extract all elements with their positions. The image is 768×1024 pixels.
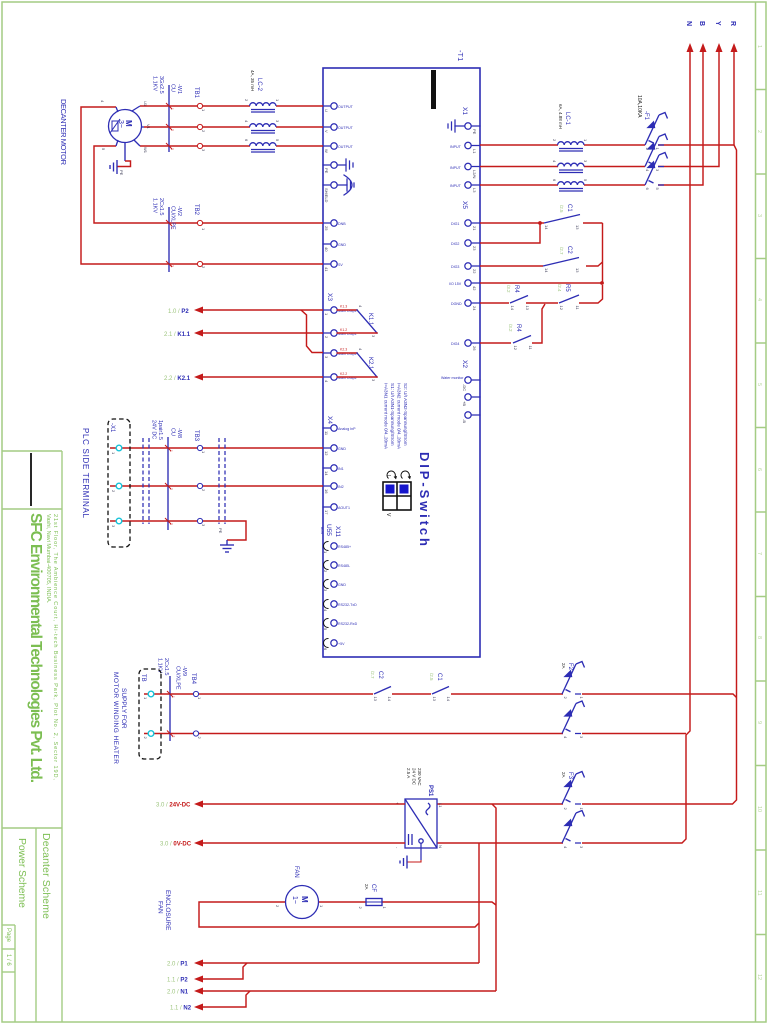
svg-text:21st Floor, The Ambience Court: 21st Floor, The Ambience Court, Hi-tech …	[52, 514, 58, 780]
svg-text:1: 1	[756, 45, 762, 48]
wire R branch to F2:1	[582, 694, 737, 698]
svg-text:2.5 A: 2.5 A	[406, 768, 411, 778]
svg-text:/2.5: /2.5	[559, 205, 564, 213]
svg-text:FAN: FAN	[293, 866, 299, 878]
svg-text:MOTOR WINDING HEATER: MOTOR WINDING HEATER	[112, 672, 119, 764]
svg-text:41: 41	[324, 267, 329, 272]
svg-text:ENCLOSURE: ENCLOSURE	[164, 890, 171, 931]
contact R4 second	[513, 336, 531, 344]
svg-text:4: 4	[324, 380, 329, 383]
svg-text:1.0 / P2: 1.0 / P2	[168, 309, 189, 315]
svg-text:B: B	[698, 21, 705, 26]
terminal U	[331, 103, 337, 109]
thermistor inside motor	[110, 119, 120, 133]
svg-text:3: 3	[583, 160, 588, 163]
svg-text:21: 21	[472, 226, 477, 231]
svg-text:C2: C2	[566, 246, 572, 254]
wire B phase	[658, 50, 703, 185]
svg-text:17: 17	[324, 510, 329, 515]
svg-text:3: 3	[170, 148, 174, 150]
wire X5:22 via C2	[480, 265, 543, 267]
svg-text:1~: 1~	[291, 896, 298, 904]
fuse switch F2 pole 1	[562, 662, 585, 695]
svg-text:42: 42	[472, 286, 477, 291]
svg-text:L1: L1	[472, 149, 477, 154]
svg-text:/3.2: /3.2	[508, 324, 513, 332]
CONTACTNET	[480, 204, 604, 351]
arrow P2	[194, 976, 203, 983]
svg-text:13: 13	[525, 306, 530, 311]
svg-text:-W1: -W1	[176, 84, 182, 94]
svg-text:N: N	[438, 845, 443, 848]
svg-text:-W8: -W8	[176, 428, 182, 438]
svg-text:3: 3	[111, 525, 116, 528]
wire R phase	[733, 50, 735, 145]
arrow R	[731, 43, 738, 52]
CONTROLLER	[320, 50, 480, 657]
svg-text:1: 1	[201, 109, 206, 112]
terminal PE	[331, 162, 337, 168]
svg-text:11: 11	[324, 431, 329, 436]
svg-text:-B: -B	[462, 419, 467, 423]
svg-text:11: 11	[575, 306, 580, 311]
arrow P1	[194, 960, 203, 967]
terminal X3:2	[331, 330, 337, 336]
HEATER	[767, 0, 768, 1]
wire branch to X5:23	[480, 223, 540, 243]
svg-text:2: 2	[645, 148, 650, 151]
svg-text:LC-1: LC-1	[564, 112, 570, 126]
MOTOR	[59, 70, 323, 272]
fan motor M 1~	[286, 886, 319, 919]
TITLE BLOCK	[2, 451, 62, 1022]
terminal X3:1	[331, 307, 337, 313]
wire rail	[602, 223, 604, 283]
wire P1	[203, 962, 479, 964]
svg-text:N: N	[685, 21, 692, 26]
terminal X3:3	[331, 350, 337, 356]
wire N2	[203, 991, 250, 1007]
shield dash marker 1	[219, 438, 225, 524]
svg-text:40: 40	[324, 247, 329, 252]
fuse switch F2 pole 2	[562, 701, 585, 734]
svg-text:4: 4	[100, 100, 105, 103]
terminal X11:1	[331, 543, 337, 549]
terminal X5:26	[465, 340, 471, 346]
svg-text:5: 5	[275, 139, 280, 142]
wire U phase	[276, 105, 323, 107]
arrow N2	[194, 1004, 203, 1011]
svg-text:V: V	[324, 130, 329, 133]
HEATER	[112, 658, 737, 849]
choke LC-1 pole 1	[558, 142, 584, 151]
svg-text:2: 2	[201, 130, 206, 133]
LC-1 pin numbers	[552, 139, 588, 182]
wire F1:1 to LC-1	[658, 144, 734, 146]
svg-text:25: 25	[324, 226, 329, 231]
svg-text:S2: U/I A3N2-Spannung/Strom: S2: U/I A3N2-Spannung/Strom	[403, 383, 408, 446]
svg-text:U1: U1	[143, 101, 148, 107]
svg-text:1.1 / N2: 1.1 / N2	[170, 1006, 192, 1012]
svg-text:INPUT: INPUT	[450, 184, 462, 188]
svg-text:5: 5	[101, 148, 106, 151]
svg-text:6: 6	[552, 179, 557, 182]
label cable W1	[152, 76, 183, 94]
wire N branch to F2:3	[582, 733, 686, 735]
svg-text:6A, 4.88 mH: 6A, 4.88 mH	[558, 104, 563, 129]
svg-text:1: 1	[583, 139, 588, 142]
wire W phase	[276, 145, 323, 147]
arrow K2.1	[194, 374, 203, 381]
terminal TB4:2	[193, 731, 198, 736]
svg-text:2.0 / P1: 2.0 / P1	[167, 962, 188, 968]
svg-text:2: 2	[171, 736, 175, 738]
ground at PS1	[400, 856, 407, 869]
svg-text:X1: X1	[461, 107, 468, 115]
svg-text:13: 13	[373, 697, 378, 702]
terminal TB3:3	[197, 518, 202, 523]
svg-text:2A: 2A	[364, 884, 369, 890]
svg-text:2: 2	[111, 490, 116, 493]
svg-text:-X1: -X1	[109, 423, 115, 433]
terminal X4:16	[331, 483, 337, 489]
ground inside box at X1:PE	[448, 120, 465, 132]
svg-text:U: U	[324, 109, 329, 112]
wire P2	[203, 963, 247, 979]
svg-text:2: 2	[324, 336, 329, 339]
svg-text:FAN: FAN	[157, 901, 164, 914]
arrow B	[700, 43, 707, 52]
svg-text:2: 2	[358, 907, 363, 910]
wire R branch to F3:1	[582, 803, 658, 805]
svg-text:I: I	[385, 475, 391, 476]
wire R branch rail	[658, 145, 737, 804]
svg-text:PE: PE	[324, 168, 329, 174]
terminal X1:L3	[465, 182, 471, 188]
wire X4:16 to X1:2	[110, 485, 323, 487]
svg-text:X5: X5	[461, 201, 468, 209]
svg-text:2: 2	[170, 129, 174, 131]
svg-text:INPUT: INPUT	[450, 145, 462, 149]
svg-text:3Gx2.5: 3Gx2.5	[158, 76, 164, 94]
svg-text:26: 26	[472, 346, 477, 351]
svg-text:K2.1: K2.1	[367, 357, 373, 370]
svg-text:-W2: -W2	[176, 206, 182, 216]
svg-text:1: 1	[201, 228, 206, 231]
terminal X5:24	[465, 300, 471, 306]
arrow N	[687, 43, 694, 52]
svg-text:2.2 / K2.1: 2.2 / K2.1	[164, 376, 191, 382]
wire CF to rail	[382, 902, 496, 905]
terminal X1:PE	[465, 123, 471, 129]
svg-text:12: 12	[756, 974, 762, 980]
svg-text:V: V	[385, 513, 391, 517]
motor pin labels	[100, 100, 151, 154]
svg-text:1: 1	[169, 450, 173, 452]
svg-text:TB: TB	[140, 674, 146, 682]
wire 24V-DC	[203, 803, 405, 805]
arrow 0V-DC	[194, 840, 203, 847]
cable marker W1	[168, 85, 170, 152]
terminal X1:L1	[465, 142, 471, 148]
terminal X4:17	[331, 504, 337, 510]
svg-text:SHIELD: SHIELD	[324, 188, 329, 203]
svg-text:/2.4: /2.4	[557, 284, 562, 292]
svg-text:1.1 / P2: 1.1 / P2	[167, 978, 188, 984]
terminal X5:21	[465, 220, 471, 226]
label cable W2	[152, 198, 183, 230]
svg-text:DIG1: DIG1	[451, 222, 459, 226]
svg-text:24 V DC: 24 V DC	[412, 768, 417, 786]
svg-text:L1: L1	[438, 803, 443, 808]
terminal X5:22	[465, 263, 471, 269]
svg-text:K2.2: K2.2	[340, 372, 347, 376]
svg-text:1: 1	[143, 697, 148, 700]
svg-text:SFC Environmental Technologies: SFC Environmental Technologies Pvt. Ltd.	[27, 513, 44, 783]
svg-text:1pair1.5: 1pair1.5	[157, 420, 163, 440]
svg-text:1: 1	[579, 697, 584, 700]
svg-text:3: 3	[579, 846, 584, 849]
svg-text:14: 14	[510, 306, 515, 311]
terminal TB2:2	[197, 261, 202, 266]
wire thermistor pin5 to 25	[94, 146, 323, 223]
svg-text:2: 2	[275, 905, 280, 908]
svg-text:I/O 15V: I/O 15V	[449, 282, 462, 286]
svg-text:U55: U55	[325, 524, 332, 536]
svg-text:3: 3	[579, 736, 584, 739]
terminal X11:3	[331, 581, 337, 587]
power supply PS1	[405, 799, 437, 848]
terminal TB1:1	[197, 103, 202, 108]
svg-text:TB4: TB4	[190, 673, 196, 685]
arrow K1.1	[194, 330, 203, 337]
svg-text:SUPPLY FOR: SUPPLY FOR	[120, 688, 127, 729]
logo black bar	[431, 70, 436, 109]
cable marker W8	[167, 437, 169, 530]
wire thermistor pin4 to 41	[81, 107, 323, 264]
wire V phase	[276, 126, 323, 128]
DIP switch body	[383, 482, 411, 510]
svg-text:14: 14	[544, 225, 549, 230]
svg-text:M: M	[124, 120, 133, 127]
svg-text:+5V: +5V	[338, 642, 345, 646]
svg-text:IN2: IN2	[338, 485, 344, 489]
wire TB3:3 to PE ground	[110, 521, 246, 540]
DIP	[383, 383, 432, 546]
fold mark	[30, 453, 32, 506]
svg-text:3: 3	[371, 379, 376, 382]
svg-text:1: 1	[171, 696, 175, 698]
svg-text:GND: GND	[338, 583, 346, 587]
terminal TB4:1	[193, 691, 198, 696]
label cable W8	[151, 420, 183, 440]
wire F3:1 to PS1 L1	[437, 803, 563, 805]
svg-text:S1: U/I A3N1-Spannung/Strom: S1: U/I A3N1-Spannung/Strom	[390, 383, 395, 446]
terminal X11:2	[331, 562, 337, 568]
U55 bracket contacts	[324, 542, 329, 648]
svg-text:4: 4	[645, 169, 650, 172]
svg-text:I=A3N1 current mode 0/4..20mA: I=A3N1 current mode 0/4..20mA	[384, 383, 389, 450]
svg-text:6: 6	[645, 188, 650, 191]
PSU	[156, 768, 443, 869]
svg-text:2A: 2A	[561, 663, 566, 669]
svg-text:13: 13	[432, 697, 437, 702]
svg-text:4: 4	[358, 348, 363, 351]
terminal strip TB dashed box	[139, 669, 161, 759]
svg-text:2: 2	[756, 130, 762, 133]
svg-text:12: 12	[324, 451, 329, 456]
wire fan left drop	[199, 902, 479, 927]
svg-text:14: 14	[387, 697, 392, 702]
wire Y phase	[658, 50, 719, 167]
svg-text:IN1: IN1	[338, 467, 344, 471]
svg-text:1: 1	[275, 99, 280, 102]
svg-text:+B: +B	[462, 401, 467, 406]
svg-text:4A, 35 mH: 4A, 35 mH	[250, 70, 255, 91]
svg-text:10: 10	[756, 806, 762, 812]
svg-text:RS232-TxD: RS232-TxD	[338, 603, 357, 607]
svg-text:L2/N: L2/N	[472, 170, 477, 179]
svg-text:5: 5	[583, 179, 588, 182]
terminal 25	[331, 220, 337, 226]
svg-text:K1.2: K1.2	[340, 328, 347, 332]
svg-text:RS232-RxD: RS232-RxD	[338, 622, 358, 626]
svg-text:Page: Page	[5, 928, 11, 943]
svg-text:C1: C1	[566, 204, 572, 212]
svg-text:R4: R4	[513, 285, 519, 293]
svg-text:12: 12	[559, 306, 564, 311]
svg-text:W1: W1	[143, 147, 148, 154]
svg-text:2: 2	[563, 808, 568, 811]
wire N1	[203, 990, 496, 992]
stubs top edge	[471, 125, 480, 127]
svg-text:1.1KV: 1.1KV	[152, 198, 158, 213]
svg-text:PE: PE	[119, 170, 124, 176]
svg-text:CU/XLPE: CU/XLPE	[170, 206, 176, 230]
svg-text:2A: 2A	[561, 772, 566, 778]
wire X5:21	[480, 222, 540, 224]
arrow N1	[194, 988, 203, 995]
svg-text:X3: X3	[326, 293, 333, 301]
terminal X11:4	[331, 601, 337, 607]
svg-text:9: 9	[756, 721, 762, 724]
shield ground symbol at SHIELD	[337, 175, 354, 195]
svg-text:PE: PE	[472, 129, 477, 135]
svg-text:DIG3: DIG3	[451, 265, 459, 269]
svg-text:-F1: -F1	[643, 111, 649, 121]
svg-text:K2.3: K2.3	[340, 348, 347, 352]
svg-text:F2: F2	[567, 663, 573, 671]
rotary arrows	[387, 471, 409, 478]
svg-text:2: 2	[170, 265, 174, 267]
svg-text:2Cx1.5: 2Cx1.5	[158, 198, 164, 215]
terminal X5:42	[465, 280, 471, 286]
terminal TB1:2	[197, 124, 202, 129]
svg-text:3: 3	[275, 120, 280, 123]
svg-text:CF: CF	[370, 884, 376, 892]
terminal W	[331, 143, 337, 149]
svg-text:/2.7: /2.7	[370, 671, 375, 679]
svg-text:5: 5	[655, 188, 660, 191]
svg-text:DIG2: DIG2	[451, 242, 459, 246]
terminal TB2:1	[197, 220, 202, 225]
X4AREA	[81, 419, 323, 552]
wire fan to CF	[318, 901, 366, 903]
pin number labels top	[462, 129, 477, 423]
svg-text:RS485-: RS485-	[338, 564, 351, 568]
svg-text:R: R	[729, 21, 736, 26]
svg-text:2: 2	[244, 99, 249, 102]
ground PE at TB3	[220, 540, 234, 552]
svg-text:14: 14	[446, 697, 451, 702]
terminal X1:L2/N	[465, 163, 471, 169]
svg-text:-: -	[395, 847, 400, 849]
X4AREA	[767, 0, 768, 1]
svg-text:14: 14	[324, 471, 329, 476]
svg-text:2: 2	[197, 737, 202, 740]
svg-text:1 / 6: 1 / 6	[5, 954, 11, 966]
svg-text:BUS: BUS	[320, 527, 324, 535]
wire rail L1 side	[492, 804, 496, 991]
wire N branch to F3:3	[582, 842, 658, 844]
svg-text:PE: PE	[218, 528, 223, 534]
wire branch X3:3	[301, 310, 323, 353]
svg-text:W: W	[324, 149, 329, 153]
svg-text:2.0 / N1: 2.0 / N1	[167, 990, 189, 996]
svg-text:2Cx1.5: 2Cx1.5	[163, 658, 169, 675]
svg-text:1: 1	[324, 313, 329, 316]
svg-text:K1.1: K1.1	[367, 313, 373, 326]
junction dot	[600, 281, 604, 285]
svg-text:2: 2	[563, 697, 568, 700]
svg-text:22: 22	[472, 269, 477, 274]
svg-text:LC-2: LC-2	[256, 78, 262, 92]
svg-text:230 VAC: 230 VAC	[417, 768, 422, 786]
svg-text:I=A3N2 current mode 0/4..20mA: I=A3N2 current mode 0/4..20mA	[397, 383, 402, 450]
arrow P2	[194, 307, 203, 314]
svg-text:-T1: -T1	[456, 50, 465, 61]
arrow Y	[716, 43, 723, 52]
svg-text:1.1KV: 1.1KV	[152, 76, 158, 91]
DIP	[767, 0, 768, 1]
FAN	[157, 804, 497, 1012]
svg-text:11: 11	[528, 346, 533, 351]
arrow 24V-DC	[194, 801, 203, 808]
svg-text:4: 4	[756, 298, 762, 301]
svg-text:Water monitor: Water monitor	[441, 376, 464, 380]
svg-text:1: 1	[319, 905, 324, 908]
svg-text:4: 4	[552, 160, 557, 163]
svg-text:L3: L3	[472, 188, 477, 193]
terminal function labels	[338, 105, 464, 646]
svg-text:DECANTER MOTOR: DECANTER MOTOR	[59, 99, 68, 166]
terminal V	[331, 124, 337, 130]
fuse switch F3 pole 1	[562, 772, 585, 805]
svg-text:-DC: -DC	[462, 384, 467, 391]
terminal 40	[331, 241, 337, 247]
svg-text:PS1: PS1	[427, 785, 433, 797]
motor M 3~	[109, 106, 145, 146]
terminal -X1:1	[116, 445, 122, 451]
svg-text:DGND: DGND	[451, 302, 462, 306]
svg-text:AOUT1: AOUT1	[338, 506, 350, 510]
terminal X4:12	[331, 445, 337, 451]
terminal TB1:3	[197, 143, 202, 148]
choke LC-1 pole 2	[558, 163, 584, 172]
wire X4:12 to X1:1	[110, 447, 323, 449]
svg-text:3: 3	[324, 356, 329, 359]
wire F3:3 to PS1 N	[437, 842, 563, 844]
